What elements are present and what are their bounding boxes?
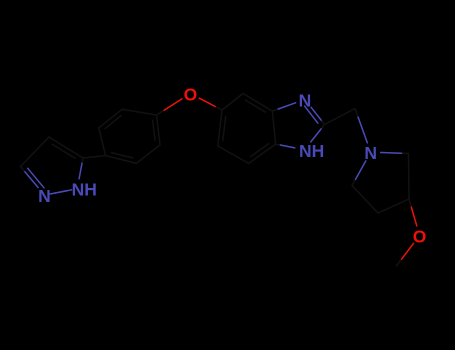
phenyl A-B	[157, 115, 161, 145]
phenyl E-F	[99, 109, 122, 128]
bond C2-C3 pyrrolidine	[408, 154, 411, 200]
svg-text:N: N	[364, 143, 377, 163]
bond C4-C5 pyrazole	[49, 137, 83, 158]
bond pyrazole-phenyl	[83, 156, 106, 158]
svg-text:N: N	[38, 186, 51, 206]
svg-text:O: O	[413, 227, 427, 247]
double bond C4=C5	[52, 144, 75, 158]
bz V6=V1 inner	[245, 100, 265, 112]
double bond N3=C2	[305, 106, 318, 123]
bz V2-V3	[249, 144, 276, 163]
svg-text:NH: NH	[299, 141, 324, 161]
bond O-CH3	[396, 243, 413, 266]
bond N3-C2	[311, 107, 324, 124]
svg-text:N: N	[299, 90, 312, 110]
bond C4-C5 pyrrolidine	[352, 186, 378, 214]
bond C5-N pyrrolidine	[352, 161, 366, 186]
bond N1-N2 pyrazole	[54, 191, 67, 194]
bz V5-V6	[222, 94, 243, 111]
svg-text:NH: NH	[72, 180, 97, 200]
svg-text:O: O	[184, 85, 198, 105]
bz V4-V5	[218, 110, 222, 146]
bond N1H-C7a	[276, 144, 295, 148]
phenyl C=D inner	[112, 153, 133, 158]
bond O-phenyl	[157, 99, 182, 115]
bond C3-C4 pyrazole	[21, 137, 50, 167]
phenyl C-D	[106, 156, 137, 164]
bond N-C2 pyrrolidine	[381, 153, 409, 154]
bz V1-V2	[272, 111, 275, 144]
bond NH-C5 pyrazole	[79, 158, 83, 179]
bond C2-CH2	[325, 109, 356, 125]
bond O-benzimidazole	[199, 98, 222, 110]
phenyl D-E	[99, 128, 106, 156]
bz V3-V4	[218, 146, 249, 163]
bond N1-C3 pyrazole	[21, 167, 39, 188]
bz V4=V5 inner	[223, 116, 226, 140]
bond C3a-N3	[272, 103, 295, 111]
bond C2-N1H	[311, 125, 325, 142]
bz V2=V3 inner	[250, 144, 268, 157]
phenyl A=B inner	[153, 120, 155, 140]
phenyl B-C	[136, 145, 160, 164]
bond C3-C4 pyrrolidine	[378, 199, 409, 213]
phenyl E=F inner	[105, 116, 121, 129]
bond CH2-N	[355, 109, 367, 143]
phenyl F-A	[122, 109, 157, 115]
bond C3-OMe	[409, 199, 417, 226]
bz V6-V1	[243, 94, 272, 112]
double bond N1=C3	[28, 168, 44, 188]
